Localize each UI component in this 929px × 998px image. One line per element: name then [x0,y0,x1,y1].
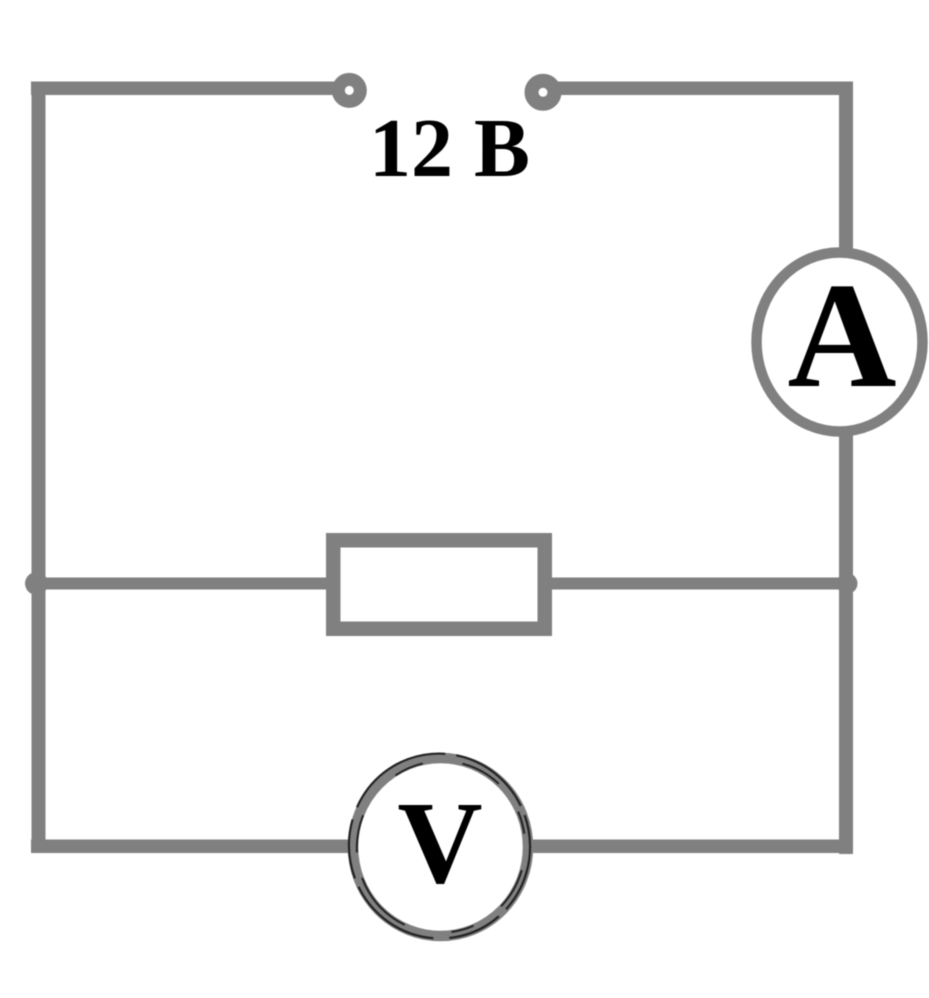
switch terminal right (open key contact) [532,81,555,104]
wire top-left horizontal segment [31,82,341,96]
ammeter A circle [757,253,923,432]
wire middle horizontal [31,578,853,590]
wire top-right horizontal segment [552,82,853,96]
svg-text:V: V [397,777,482,908]
voltmeter V circle [353,758,528,936]
wire left vertical [32,82,46,854]
resistor R [333,540,545,629]
node right junction [837,573,858,594]
node left junction [25,572,48,595]
voltmeter V sketch outline black outer [334,739,544,953]
wire right vertical [839,82,853,855]
switch terminal left (open key contact) [338,79,360,101]
svg-text:A: A [787,251,896,419]
wire bottom horizontal [31,840,853,854]
voltmeter V sketch outline black inner [337,741,546,953]
svg-text:12 В: 12 В [369,102,530,195]
